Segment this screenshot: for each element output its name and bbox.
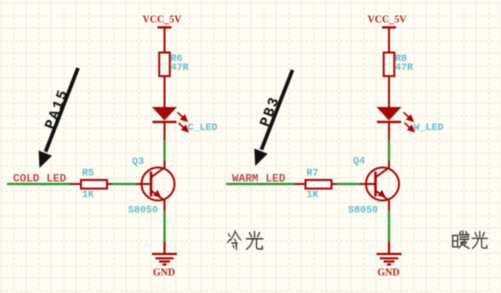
resistor R8 — [384, 53, 413, 77]
svg-text:GND: GND — [377, 268, 399, 279]
svg-text:Q4: Q4 — [353, 157, 365, 168]
wire (left end to R5) — [7, 183, 71, 185]
wire (left end to R7) — [226, 183, 295, 185]
transistor Q4 (NPN S8050) — [360, 161, 399, 211]
wire (R5 to Q3 base) — [112, 183, 136, 185]
svg-text:1K: 1K — [307, 190, 319, 201]
svg-text:VCC_5V: VCC_5V — [143, 15, 183, 26]
wire (R8 to LED anode) — [388, 76, 390, 107]
power flag VCC_5V (left) — [143, 15, 183, 53]
wire (R7 to Q4 base) — [337, 183, 361, 185]
node arrow PA15 — [39, 68, 78, 168]
svg-text:Q3: Q3 — [132, 157, 144, 168]
LED D-cold (C_LED) — [152, 107, 218, 141]
ground GND (right) — [377, 242, 402, 265]
text 暖光 (warm light) — [453, 231, 488, 248]
svg-text:W_LED: W_LED — [414, 123, 444, 134]
svg-text:S8050: S8050 — [128, 206, 158, 217]
svg-text:1K: 1K — [82, 190, 94, 201]
svg-text:R5: R5 — [82, 169, 94, 180]
wire (LED cathode to Q4 collector) — [388, 140, 390, 161]
svg-text:VCC_5V: VCC_5V — [368, 15, 408, 26]
wire (underscore blend on wire) — [259, 183, 266, 185]
LED D-warm (W_LED) — [377, 107, 444, 141]
wire (R6 to LED anode) — [164, 76, 166, 107]
wire (underscore blend on wire) — [40, 183, 47, 185]
svg-text:C_LED: C_LED — [188, 123, 218, 134]
svg-text:47R: 47R — [395, 63, 413, 74]
transistor Q3 (NPN S8050) — [136, 161, 175, 211]
node arrow PB3 — [254, 70, 292, 166]
resistor R5 — [70, 169, 113, 202]
ground GND (left) — [152, 242, 177, 265]
wire (Q4 emitter to GND) — [388, 211, 390, 243]
svg-text:47R: 47R — [171, 63, 189, 74]
LED emission arrows — [178, 112, 188, 131]
LED emission arrows — [404, 112, 414, 131]
svg-text:R7: R7 — [307, 169, 319, 180]
resistor R7 — [295, 169, 338, 202]
wire (LED cathode to Q3 collector) — [163, 140, 165, 161]
wire (Q3 emitter to GND) — [163, 211, 165, 243]
power flag VCC_5V (right) — [368, 15, 408, 53]
svg-text:S8050: S8050 — [348, 206, 378, 217]
svg-text:GND: GND — [153, 268, 175, 279]
resistor R6 — [159, 53, 188, 77]
text 冷光 (cold light) — [228, 231, 263, 250]
